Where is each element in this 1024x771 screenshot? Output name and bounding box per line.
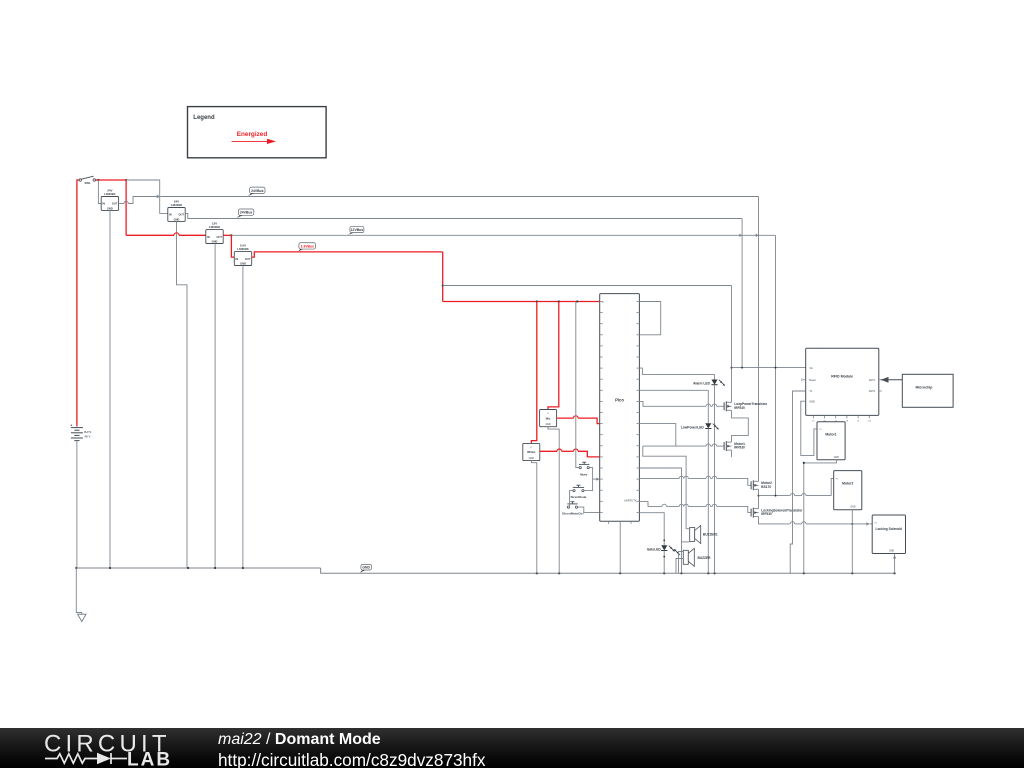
svg-text:GND: GND: [850, 507, 855, 509]
svg-text:Legend: Legend: [193, 115, 215, 121]
svg-text:Mic: Mic: [546, 416, 551, 420]
svg-text:GND: GND: [889, 551, 894, 553]
svg-text:GND: GND: [529, 457, 535, 460]
svg-text:UART0 TX: UART0 TX: [624, 499, 637, 503]
svg-text:210: 210: [868, 421, 872, 423]
svg-text:IN: IN: [207, 235, 210, 239]
svg-text:GND: GND: [545, 423, 551, 426]
svg-text:OUT: OUT: [112, 202, 118, 206]
svg-text:25: 25: [812, 421, 815, 423]
svg-text:Pico: Pico: [615, 398, 624, 403]
svg-text:IN: IN: [169, 213, 172, 217]
svg-text:GND: GND: [107, 206, 113, 210]
svg-text:48 V: 48 V: [84, 434, 90, 438]
svg-text:IN: IN: [102, 202, 105, 206]
svg-text:BS170: BS170: [761, 485, 771, 489]
svg-text:28: 28: [846, 421, 849, 423]
svg-text:ANT1: ANT1: [869, 379, 876, 382]
svg-text:GND: GND: [834, 457, 839, 459]
svg-text:3.3VBus: 3.3VBus: [301, 244, 314, 248]
svg-text:OUT: OUT: [217, 235, 223, 239]
svg-text:Alarm LED: Alarm LED: [693, 382, 710, 386]
svg-text:LM309K: LM309K: [104, 192, 116, 196]
svg-text:IRF530: IRF530: [734, 406, 745, 410]
svg-text:IROut: IROut: [527, 450, 535, 454]
svg-text:OUT: OUT: [179, 213, 185, 217]
svg-text:LM309K: LM309K: [209, 225, 221, 229]
svg-text:Locking Solenoid: Locking Solenoid: [876, 527, 903, 531]
svg-text:IRF530: IRF530: [734, 446, 745, 450]
svg-text:GND: GND: [240, 261, 246, 265]
svg-text:GND: GND: [809, 400, 815, 403]
svg-text:Mute: Mute: [580, 473, 587, 477]
svg-text:IN: IN: [236, 257, 239, 261]
svg-text:IRF530: IRF530: [761, 512, 772, 516]
svg-text:Energized: Energized: [237, 131, 268, 138]
svg-text:GND: GND: [174, 217, 180, 221]
svg-text:SW1: SW1: [84, 181, 91, 185]
svg-text:LM309K: LM309K: [171, 203, 183, 207]
svg-text:+: +: [70, 423, 72, 427]
svg-text:Reset: Reset: [809, 379, 816, 382]
svg-text:BUZZER1: BUZZER1: [703, 533, 718, 537]
svg-text:GND: GND: [362, 565, 370, 569]
svg-text:GateLED: GateLED: [647, 547, 662, 551]
svg-text:29: 29: [857, 421, 860, 423]
svg-text:24VBus: 24VBus: [251, 189, 264, 193]
svg-text:OUT: OUT: [245, 257, 251, 261]
svg-text:ANT2: ANT2: [869, 390, 876, 393]
svg-text:12VBus: 12VBus: [351, 228, 364, 232]
svg-text:Microchip: Microchip: [916, 386, 934, 390]
svg-text:GND: GND: [212, 239, 218, 243]
svg-text:Motor1: Motor1: [825, 433, 836, 437]
svg-text:GhostMuteCtrl: GhostMuteCtrl: [562, 512, 584, 516]
svg-text:LM309K: LM309K: [237, 247, 249, 251]
svg-text:BUZZER: BUZZER: [698, 556, 712, 560]
svg-text:LowPowerLED: LowPowerLED: [681, 425, 705, 429]
svg-text:RFID Module: RFID Module: [831, 375, 853, 379]
svg-text:Motor2: Motor2: [842, 482, 853, 486]
svg-text:24VBus: 24VBus: [240, 211, 253, 215]
svg-text:SirenMode: SirenMode: [570, 495, 586, 499]
svg-text:LAB: LAB: [127, 750, 172, 769]
